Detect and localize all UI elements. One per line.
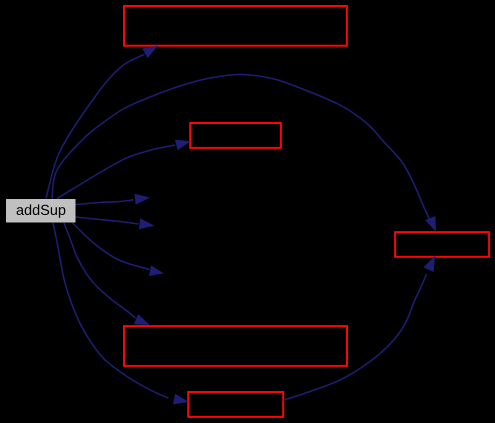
edge: addSup to bottom small box (53, 223, 169, 398)
edge: addSup to top box (46, 54, 145, 198)
arrowhead: addSup to hidden node 2 (139, 218, 155, 229)
node: middle box (190, 123, 281, 148)
edge: bottom small box to right box (284, 274, 427, 400)
arrowhead: addSup to bottom large box (134, 314, 150, 325)
edge: addSup to hidden node 3 (73, 223, 150, 270)
arrowhead: addSup to bottom small box (173, 394, 189, 405)
node: bottom small box (188, 392, 283, 417)
node: top box (124, 6, 347, 46)
label: addSup text (17, 204, 66, 218)
edge: addSup to bottom large box (64, 223, 136, 318)
edge: addSup to hidden node 1 (76, 200, 134, 205)
edge: addSup to right box (over top) (52, 74, 430, 219)
edge: addSup to middle box (57, 145, 175, 199)
arrowhead: addSup to top box (142, 46, 158, 58)
node: addSup (current) (6, 199, 76, 223)
edge: addSup to hidden node 2 (76, 217, 139, 224)
arrowheads (134, 46, 436, 405)
edges: call-graph arrows (46, 54, 430, 400)
arrowhead: addSup to hidden node 1 (135, 194, 151, 205)
node: bottom large box (124, 326, 347, 366)
arrowhead: addSup to hidden node 3 (149, 265, 164, 276)
arrowhead: bottom small box to right box (424, 256, 436, 272)
arrowhead: addSup to right box (over top) (425, 216, 436, 232)
node: right box (395, 232, 489, 257)
arrowhead: addSup to middle box (175, 140, 191, 151)
